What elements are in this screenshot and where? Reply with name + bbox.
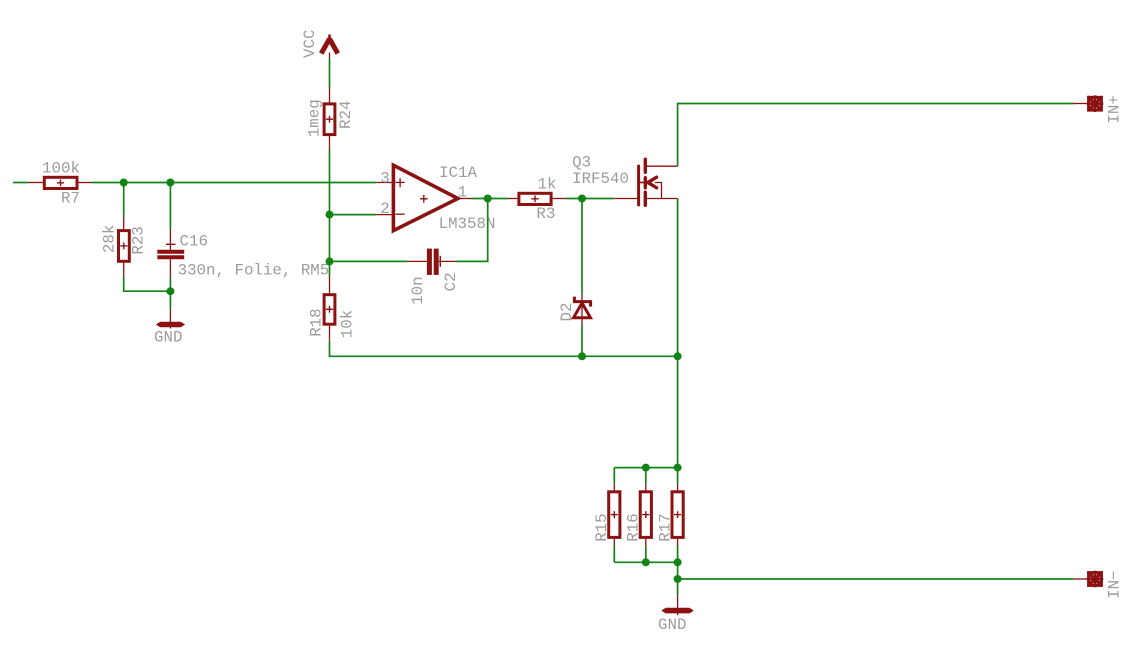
resistor R17 [672, 484, 683, 546]
junction node input/R23 [120, 179, 128, 187]
svg-text:1meg: 1meg [306, 99, 324, 137]
wire D2 branch down [581, 199, 583, 294]
svg-text:VCC: VCC [301, 30, 319, 58]
pin connector IN+ [1074, 95, 1104, 112]
junction node gate/D2 [578, 195, 586, 203]
junction node output/C2 [484, 195, 492, 203]
mosfet Q3 [614, 159, 678, 205]
wire R3 to gate [567, 198, 614, 200]
junction node IN- [674, 575, 682, 583]
resistor R16 [640, 484, 651, 546]
junction node feedback C2 [326, 257, 334, 265]
wire R16 bottom drop [645, 546, 647, 562]
svg-text:R16: R16 [625, 513, 643, 541]
svg-text:IC1A: IC1A [439, 164, 477, 182]
resistor R23 [119, 216, 130, 277]
junction node R23/C16/GND [166, 287, 174, 295]
resistor R18 [324, 277, 335, 342]
zener diode D2 [573, 294, 592, 326]
resistor R24 [324, 88, 335, 151]
pin connector IN- [1074, 571, 1104, 588]
wire C2 row left [330, 260, 408, 262]
svg-text:1: 1 [458, 184, 467, 202]
wire down to IN- node [677, 562, 679, 595]
svg-text:330n, Folie, RM5: 330n, Folie, RM5 [178, 262, 330, 280]
svg-text:Q3: Q3 [572, 153, 591, 171]
svg-text:R18: R18 [308, 308, 326, 336]
wire pin2 [330, 214, 377, 216]
capacitor C2 [408, 249, 456, 275]
svg-text:R24: R24 [337, 101, 355, 129]
svg-text:C2: C2 [442, 272, 460, 291]
ground symbol left [157, 309, 184, 329]
wire shunt bottom bus [614, 561, 677, 563]
svg-text:IN−: IN− [1106, 570, 1124, 598]
svg-text:R3: R3 [536, 205, 555, 223]
wire R18 bottom to lower bus [330, 341, 678, 356]
svg-text:R7: R7 [61, 190, 80, 208]
resistor R7 [28, 177, 92, 188]
wire output row [472, 198, 508, 200]
wire net input row middle [93, 182, 377, 184]
svg-text:1k: 1k [538, 176, 557, 194]
junction node input/C16 [166, 179, 174, 187]
svg-text:10k: 10k [338, 310, 356, 338]
resistor R3 [508, 193, 567, 204]
svg-text:28k: 28k [101, 225, 119, 253]
wire R17 bottom drop [677, 546, 679, 562]
svg-text:GND: GND [154, 329, 182, 347]
svg-text:R23: R23 [130, 226, 148, 254]
junction node D2/lower bus [578, 352, 586, 360]
junction node R16 bottom [642, 558, 650, 566]
junction node source bus [674, 352, 682, 360]
wire output to C2 branch [456, 199, 488, 262]
ground symbol right [662, 596, 693, 616]
wire C16 bottom [169, 278, 171, 291]
wire C16 branch down [169, 183, 171, 229]
svg-text:IN+: IN+ [1106, 95, 1124, 123]
capacitor C16 [157, 229, 184, 278]
wire R23 branch down [123, 183, 125, 216]
svg-text:IRF540: IRF540 [572, 170, 629, 188]
wire R15 bottom drop [613, 546, 615, 562]
wire R15 top drop [613, 468, 615, 484]
wire down to shunt top bus [677, 356, 679, 484]
wire R24 down vertical [329, 150, 331, 277]
wire source down to lower bus [677, 199, 679, 357]
wire R16 top drop [645, 468, 647, 484]
supply symbol VCC [321, 35, 338, 59]
wire net input row left [13, 182, 28, 184]
wire R23 bottom to C16 bottom node [124, 277, 171, 292]
junction node R16 top [642, 464, 650, 472]
svg-text:3: 3 [380, 169, 389, 187]
wire D2 bottom [581, 326, 583, 356]
junction node pin2 [326, 211, 334, 219]
svg-text:GND: GND [658, 616, 686, 634]
svg-text:R15: R15 [593, 513, 611, 541]
svg-text:R17: R17 [657, 513, 675, 541]
wire drain up and to IN+ [678, 104, 1074, 167]
wire shunt top bus [614, 467, 677, 469]
wire to GND left [169, 291, 171, 308]
resistor R15 [609, 484, 620, 546]
junction node shunt top [674, 464, 682, 472]
wire VCC to R24 [329, 59, 331, 88]
svg-text:10n: 10n [409, 276, 427, 304]
svg-text:2: 2 [380, 200, 389, 218]
svg-text:100k: 100k [42, 160, 80, 178]
wire IN- row [678, 578, 1074, 580]
op-amp IC1A [376, 165, 471, 230]
junction node shunt bottom [674, 558, 682, 566]
svg-text:D2: D2 [558, 303, 576, 322]
svg-text:C16: C16 [180, 232, 208, 250]
